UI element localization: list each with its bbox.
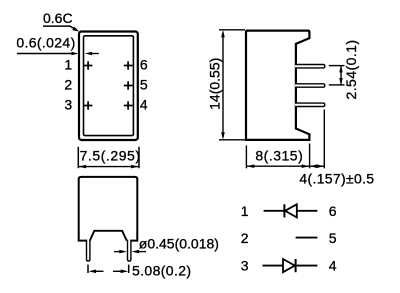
svg-text:ø0.45(0.018): ø0.45(0.018) xyxy=(139,236,219,252)
svg-text:4: 4 xyxy=(140,97,148,113)
top view body inner outline xyxy=(84,36,134,136)
diode D1 cathode bar xyxy=(283,204,285,217)
body width arrowheads xyxy=(247,164,255,168)
wall dim right arrow xyxy=(91,53,99,55)
svg-text:2: 2 xyxy=(241,230,249,246)
svg-text:1: 1 xyxy=(241,203,249,219)
svg-text:6: 6 xyxy=(140,57,148,73)
height dim extension bottom xyxy=(219,139,245,141)
svg-text:14(0.55): 14(0.55) xyxy=(207,58,223,110)
front view standoff notch xyxy=(90,231,127,241)
diode D2 cathode bar xyxy=(295,259,297,272)
polarity mark pin 3 xyxy=(84,101,93,110)
side view pin 2 xyxy=(295,84,325,87)
pin length extension line xyxy=(323,110,325,169)
chamfer leader line xyxy=(43,26,76,30)
pin pitch dim tick pin2 xyxy=(329,84,345,86)
pin length dim line xyxy=(310,165,325,167)
polarity mark pin 4 xyxy=(124,101,133,110)
polarity mark pin 6 xyxy=(124,61,133,70)
height dim arrowheads xyxy=(221,30,225,38)
lead spacing dim left tick xyxy=(87,265,89,273)
svg-text:4: 4 xyxy=(329,257,337,273)
svg-text:5: 5 xyxy=(140,77,148,93)
svg-text:5.08(0.2): 5.08(0.2) xyxy=(132,262,191,278)
front view right lead xyxy=(128,240,131,262)
width dim extension line right xyxy=(138,147,140,168)
pin pitch dim line xyxy=(340,66,342,85)
polarity mark pin 1 xyxy=(84,61,93,70)
diode D2 cathode wire (pin 4 side) xyxy=(296,265,318,267)
side view pin 3 xyxy=(295,103,325,106)
body width dim extension right xyxy=(309,144,311,169)
diode D1 triangle (pointing left) xyxy=(285,204,297,217)
svg-text:0.6C: 0.6C xyxy=(43,10,73,26)
diode D1 cathode wire (pin 1 side) xyxy=(264,210,285,212)
pin pitch dim tick pin1 xyxy=(329,65,345,67)
svg-text:8(.315): 8(.315) xyxy=(255,148,303,164)
front view left lead xyxy=(87,240,90,262)
diode D2 triangle (pointing right) xyxy=(283,259,295,272)
width dim extension line left xyxy=(77,147,79,168)
pin pitch arrowheads xyxy=(339,66,343,73)
svg-text:2: 2 xyxy=(64,77,72,93)
body width dim line xyxy=(246,165,309,167)
chamfer leader arrowhead xyxy=(72,27,79,32)
diode D2 anode wire (pin 3 side) xyxy=(263,265,284,267)
svg-text:3: 3 xyxy=(64,97,72,113)
svg-text:1: 1 xyxy=(64,57,72,73)
svg-text:7.5(.295): 7.5(.295) xyxy=(80,148,141,164)
svg-text:4(.157)±0.5: 4(.157)±0.5 xyxy=(299,171,374,187)
body width dim extension left xyxy=(245,146,247,169)
svg-text:3: 3 xyxy=(241,257,249,273)
pin length arrowheads xyxy=(310,164,317,168)
diode D1 anode wire (pin 6 side) xyxy=(297,210,318,212)
svg-text:2.54(0.1): 2.54(0.1) xyxy=(343,39,359,99)
pin 2-5 stub wire xyxy=(296,237,318,239)
wall dim left arrow xyxy=(17,53,73,55)
lead spacing dim right tick xyxy=(128,265,130,273)
polarity mark pin 5 xyxy=(124,81,133,90)
width dim arrowheads xyxy=(79,165,87,169)
width dim line xyxy=(78,166,139,168)
svg-text:6: 6 xyxy=(329,203,337,219)
side view body outline xyxy=(246,31,309,140)
svg-text:0.6(.024): 0.6(.024) xyxy=(16,35,75,51)
top view body outer outline xyxy=(79,32,138,141)
height dim line xyxy=(222,33,224,137)
svg-text:5: 5 xyxy=(329,230,337,246)
side view pin 1 xyxy=(295,65,325,68)
front view body outline xyxy=(79,177,138,241)
lead diameter dim arrows xyxy=(114,251,120,253)
height dim extension top xyxy=(219,29,245,31)
